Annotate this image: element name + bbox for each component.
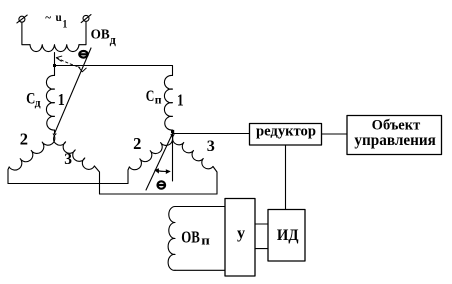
angle arrow Theta right (double arrow) [154, 168, 171, 174]
winding Sp-3 (coil) [173, 135, 213, 169]
svg-text:3: 3 [207, 136, 215, 155]
terminal X1 [17, 15, 27, 23]
winding Sd-1 (coil) [46, 75, 54, 130]
wire U to ID lower [255, 248, 268, 250]
wire OVp top [175, 206, 225, 208]
winding Sd-3 (coil) [54, 134, 95, 170]
svg-text:ОВ: ОВ [181, 228, 200, 247]
svg-text:управления: управления [354, 132, 436, 149]
svg-text:С: С [146, 88, 155, 105]
svg-text:ОВ: ОВ [91, 27, 110, 42]
wire reduktor to object [322, 133, 348, 135]
wire phase 3 bus [100, 193, 218, 195]
label Theta left (angle symbol) [79, 51, 87, 58]
inductor OVd (excitation winding) [30, 45, 79, 52]
svg-text:д: д [110, 33, 117, 47]
svg-text:2: 2 [133, 134, 141, 153]
svg-text:редуктор: редуктор [256, 124, 316, 140]
svg-text:у: у [237, 224, 245, 242]
wire right lead [79, 21, 86, 44]
wire star stub left [54, 130, 56, 134]
block reduktor (gearbox) [250, 124, 322, 146]
svg-text:1: 1 [63, 19, 68, 31]
svg-text:п: п [155, 95, 162, 107]
svg-text:3: 3 [64, 151, 72, 168]
svg-text:1: 1 [58, 90, 65, 109]
svg-text:ИД: ИД [277, 227, 299, 244]
svg-text:1: 1 [177, 90, 184, 109]
inductor OVp (control winding) [168, 207, 175, 271]
node A (junction dot) [53, 64, 56, 67]
wire synchro to reduktor [173, 133, 250, 135]
winding Sp-2 (coil) [129, 135, 172, 170]
node B (junction dot right synchro) [171, 130, 174, 133]
wire winding2-left end [8, 167, 9, 184]
wire winding2-right end [128, 167, 129, 184]
wire star stub right [172, 130, 174, 134]
wire left lead [22, 22, 30, 45]
wire OVp bottom [175, 269, 225, 271]
wire U to ID upper [255, 223, 268, 225]
rotor axis line (right synchro, diagonal) [146, 134, 173, 191]
svg-text:u: u [56, 12, 62, 24]
rotor axis reference (right synchro, vertical) [172, 134, 174, 182]
winding Sd-2 (coil) [9, 134, 55, 170]
svg-text:д: д [35, 97, 41, 109]
wire reduktor to ID [285, 145, 287, 210]
winding Sp-1 (coil) [164, 75, 172, 130]
angle arc Theta left (double arrow) [56, 56, 86, 72]
block U (amplifier) [225, 199, 255, 277]
block ID (executive motor) [268, 210, 305, 262]
terminal X2 [81, 15, 91, 23]
rotor axis line (left synchro, diagonal) [55, 48, 92, 134]
svg-text:2: 2 [20, 130, 28, 149]
svg-text:~: ~ [45, 12, 51, 24]
svg-text:п: п [201, 233, 210, 248]
wire rotor axis tap (left synchro) [54, 53, 56, 76]
wire phase 1 [55, 66, 173, 76]
wire phase 2 bus [8, 183, 128, 185]
block object of control [347, 116, 442, 155]
label Theta right (angle symbol) [158, 181, 166, 188]
wire winding3-right end [213, 167, 217, 195]
wire winding3-left end [94, 166, 99, 194]
